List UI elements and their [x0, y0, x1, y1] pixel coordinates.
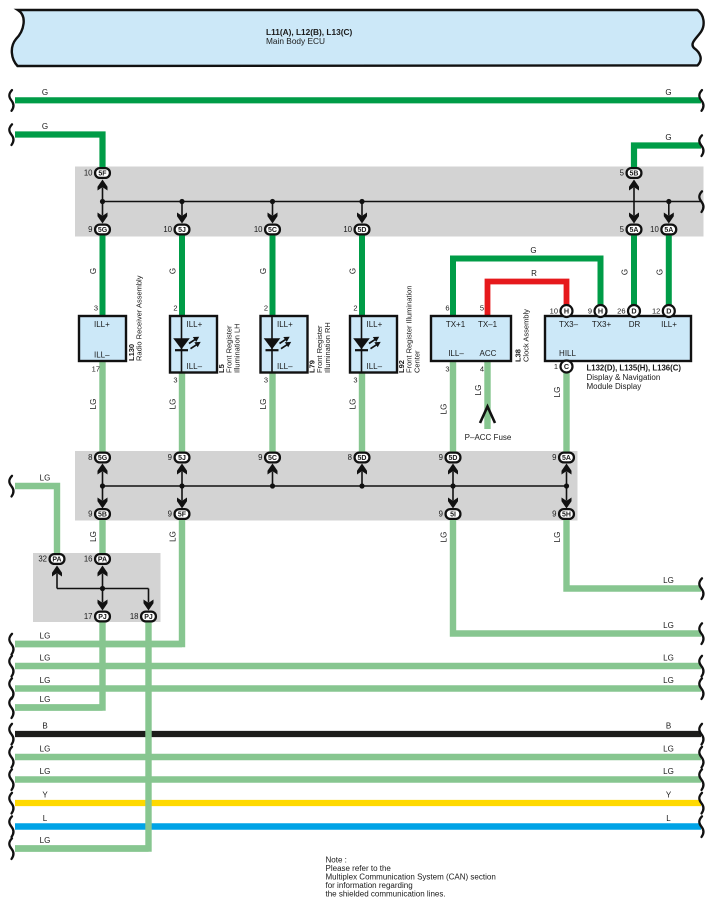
svg-text:G: G — [655, 269, 664, 275]
svg-text:LG: LG — [40, 745, 51, 754]
svg-text:3: 3 — [445, 365, 449, 374]
svg-text:P–ACC Fuse: P–ACC Fuse — [465, 433, 512, 442]
svg-text:9: 9 — [439, 453, 443, 462]
svg-text:9: 9 — [88, 225, 92, 234]
svg-text:L: L — [666, 814, 671, 823]
svg-text:26: 26 — [617, 307, 625, 316]
svg-text:5C: 5C — [268, 455, 277, 462]
svg-text:Center: Center — [412, 350, 421, 373]
svg-text:32: 32 — [38, 555, 47, 564]
svg-text:5: 5 — [620, 169, 625, 178]
svg-text:3: 3 — [94, 304, 98, 313]
svg-text:10: 10 — [254, 225, 263, 234]
svg-text:LG: LG — [349, 399, 358, 410]
svg-text:5D: 5D — [358, 455, 367, 462]
svg-text:LG: LG — [40, 836, 51, 845]
svg-text:2: 2 — [264, 304, 268, 313]
svg-text:TX+1: TX+1 — [446, 320, 466, 329]
svg-text:TX3–: TX3– — [559, 320, 579, 329]
svg-text:5G: 5G — [98, 455, 108, 462]
svg-text:PJ: PJ — [98, 614, 107, 621]
svg-text:9: 9 — [88, 510, 92, 519]
svg-text:G: G — [665, 88, 671, 97]
svg-text:4: 4 — [480, 365, 484, 374]
svg-text:PA: PA — [98, 557, 107, 564]
svg-text:LG: LG — [259, 399, 268, 410]
svg-text:G: G — [621, 269, 630, 275]
svg-text:5F: 5F — [98, 171, 107, 178]
svg-text:B: B — [666, 722, 671, 731]
svg-text:PJ: PJ — [144, 614, 153, 621]
svg-text:18: 18 — [130, 612, 139, 621]
svg-text:ILL+: ILL+ — [94, 320, 110, 329]
svg-text:9: 9 — [168, 510, 172, 519]
svg-text:Y: Y — [42, 791, 48, 800]
svg-text:G: G — [530, 246, 536, 255]
svg-text:10: 10 — [650, 225, 659, 234]
svg-text:ILL+: ILL+ — [277, 320, 293, 329]
svg-text:ILL–: ILL– — [448, 349, 464, 358]
svg-text:H: H — [598, 307, 603, 316]
svg-text:9: 9 — [258, 453, 262, 462]
svg-text:3: 3 — [353, 376, 357, 385]
svg-text:ILL+: ILL+ — [367, 320, 383, 329]
svg-text:LG: LG — [89, 531, 98, 542]
svg-text:5B: 5B — [98, 512, 107, 519]
svg-text:5A: 5A — [630, 227, 639, 234]
svg-text:G: G — [42, 88, 48, 97]
svg-text:17: 17 — [92, 365, 100, 374]
svg-text:ILL+: ILL+ — [661, 320, 677, 329]
svg-text:LG: LG — [663, 745, 674, 754]
svg-text:LG: LG — [663, 621, 674, 630]
svg-text:LG: LG — [553, 387, 562, 398]
svg-text:5D: 5D — [449, 455, 458, 462]
svg-text:10: 10 — [163, 225, 172, 234]
svg-text:LG: LG — [663, 654, 674, 663]
svg-text:LG: LG — [169, 531, 178, 542]
svg-text:Radio Receiver Assembly: Radio Receiver Assembly — [135, 275, 144, 361]
svg-text:5D: 5D — [358, 227, 367, 234]
svg-text:PA: PA — [52, 557, 61, 564]
svg-text:LG: LG — [169, 399, 178, 410]
svg-text:Illumination LH: Illumination LH — [232, 323, 241, 373]
svg-text:9: 9 — [588, 307, 592, 316]
svg-text:10: 10 — [84, 169, 93, 178]
svg-text:ILL–: ILL– — [187, 362, 203, 371]
svg-text:5I: 5I — [450, 512, 456, 519]
svg-text:5J: 5J — [178, 227, 186, 234]
svg-text:D: D — [666, 307, 671, 316]
svg-text:DR: DR — [629, 320, 641, 329]
svg-text:9: 9 — [552, 510, 556, 519]
svg-text:17: 17 — [84, 612, 93, 621]
svg-text:C: C — [564, 362, 569, 371]
svg-text:the shielded communication lin: the shielded communication lines. — [326, 890, 446, 899]
svg-text:ACC: ACC — [480, 349, 497, 358]
svg-text:LG: LG — [40, 767, 51, 776]
svg-text:9: 9 — [439, 510, 443, 519]
svg-text:LG: LG — [663, 767, 674, 776]
svg-text:G: G — [349, 268, 358, 274]
svg-text:R: R — [531, 269, 537, 278]
svg-text:LG: LG — [40, 654, 51, 663]
svg-text:LG: LG — [663, 576, 674, 585]
svg-text:TX3+: TX3+ — [592, 320, 612, 329]
svg-text:LG: LG — [40, 676, 51, 685]
svg-text:5F: 5F — [178, 512, 187, 519]
svg-text:L132(D), L135(H), L136(C): L132(D), L135(H), L136(C) — [587, 364, 682, 373]
svg-text:LG: LG — [40, 695, 51, 704]
svg-text:H: H — [564, 307, 569, 316]
svg-text:8: 8 — [88, 453, 92, 462]
svg-text:LG: LG — [553, 532, 562, 543]
svg-text:2: 2 — [173, 304, 177, 313]
svg-text:HILL: HILL — [559, 349, 576, 358]
svg-text:2: 2 — [353, 304, 357, 313]
svg-text:ILL–: ILL– — [94, 351, 110, 360]
svg-text:6: 6 — [445, 304, 449, 313]
svg-text:G: G — [169, 268, 178, 274]
svg-text:G: G — [259, 268, 268, 274]
svg-text:ILL–: ILL– — [367, 362, 383, 371]
svg-text:3: 3 — [173, 376, 177, 385]
svg-text:LG: LG — [663, 676, 674, 685]
svg-text:ILL+: ILL+ — [187, 320, 203, 329]
svg-text:G: G — [42, 122, 48, 131]
svg-text:G: G — [665, 133, 671, 142]
svg-text:9: 9 — [552, 453, 556, 462]
svg-text:G: G — [89, 268, 98, 274]
svg-text:Main Body ECU: Main Body ECU — [266, 36, 325, 46]
svg-text:LG: LG — [89, 399, 98, 410]
svg-text:5A: 5A — [562, 455, 571, 462]
svg-text:Display & Navigation: Display & Navigation — [587, 373, 661, 382]
svg-text:16: 16 — [84, 555, 93, 564]
svg-text:5C: 5C — [268, 227, 277, 234]
svg-text:5G: 5G — [98, 227, 108, 234]
svg-text:1: 1 — [554, 362, 558, 371]
svg-text:5J: 5J — [178, 455, 186, 462]
svg-text:LG: LG — [40, 632, 51, 641]
svg-text:9: 9 — [168, 453, 172, 462]
svg-text:5: 5 — [480, 304, 484, 313]
svg-text:ILL–: ILL– — [277, 362, 293, 371]
svg-text:5: 5 — [620, 225, 625, 234]
svg-text:5H: 5H — [562, 512, 571, 519]
svg-text:LG: LG — [40, 474, 51, 483]
svg-text:L: L — [43, 814, 48, 823]
svg-text:TX–1: TX–1 — [478, 320, 498, 329]
svg-text:LG: LG — [440, 532, 449, 543]
svg-text:Module Display: Module Display — [587, 382, 642, 391]
svg-text:LG: LG — [474, 385, 483, 396]
svg-text:8: 8 — [348, 453, 352, 462]
svg-text:10: 10 — [343, 225, 352, 234]
svg-text:Y: Y — [666, 791, 672, 800]
svg-text:5B: 5B — [630, 171, 639, 178]
svg-text:3: 3 — [264, 376, 268, 385]
svg-text:10: 10 — [550, 307, 558, 316]
svg-text:LG: LG — [440, 404, 449, 415]
svg-text:Clock Assembly: Clock Assembly — [522, 309, 531, 362]
svg-text:D: D — [631, 307, 636, 316]
svg-text:12: 12 — [652, 307, 660, 316]
svg-text:Illumination RH: Illumination RH — [323, 322, 332, 373]
svg-text:5A: 5A — [664, 227, 673, 234]
svg-text:B: B — [42, 722, 47, 731]
